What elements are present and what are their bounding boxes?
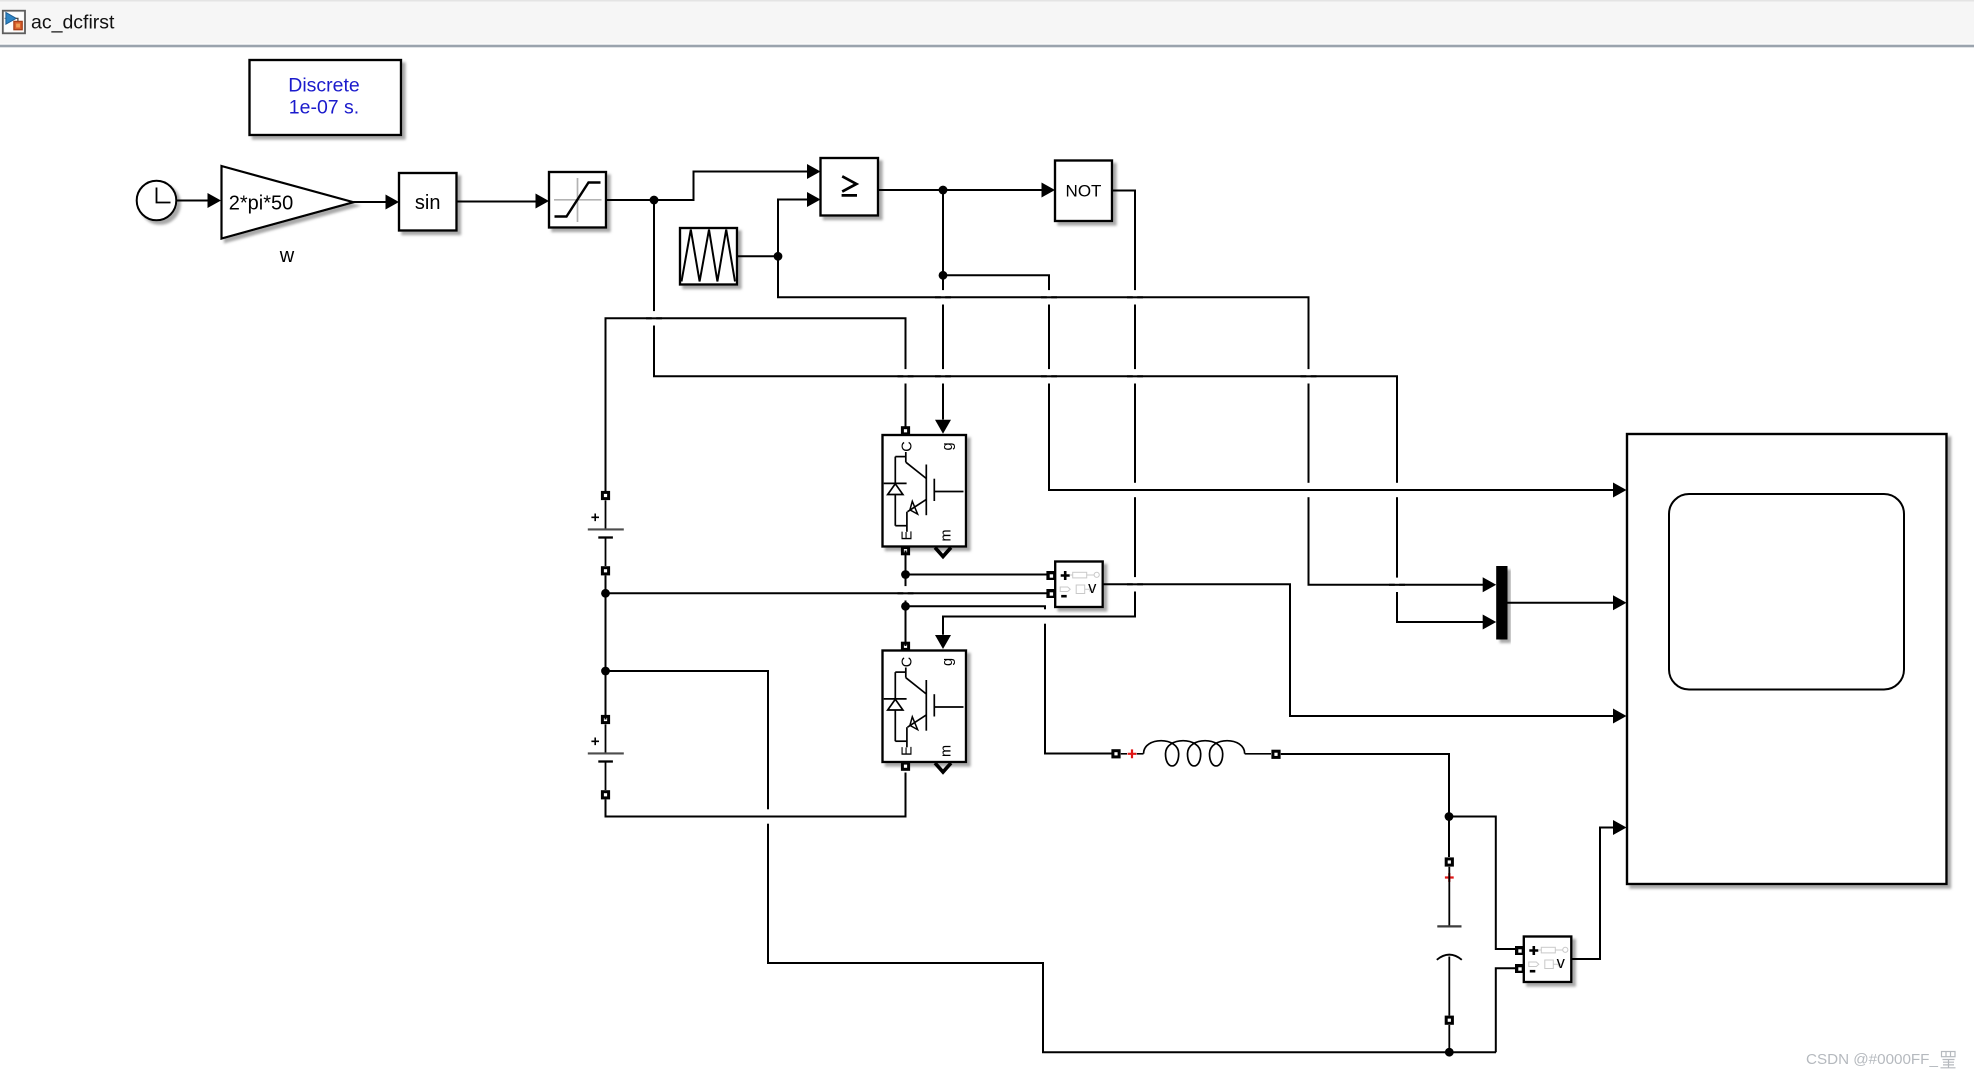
svg-text:w: w	[279, 245, 295, 267]
svg-text:v: v	[1088, 579, 1097, 597]
svg-text:E: E	[900, 530, 916, 540]
svg-text:C: C	[900, 441, 916, 451]
svg-text:m: m	[939, 529, 955, 541]
svg-text:C: C	[900, 657, 916, 667]
svg-text:NOT: NOT	[1066, 181, 1102, 200]
svg-text:CSDN @#0000FF_: CSDN @#0000FF_	[1806, 1051, 1938, 1068]
svg-text:ac_dcfirst: ac_dcfirst	[31, 12, 115, 34]
svg-text:E: E	[900, 746, 916, 756]
svg-text:sin: sin	[415, 192, 441, 214]
svg-text:g: g	[940, 658, 956, 666]
svg-text:v: v	[1557, 954, 1566, 972]
svg-text:1e-07 s.: 1e-07 s.	[289, 97, 359, 119]
svg-text:g: g	[940, 442, 956, 450]
svg-text:Discrete: Discrete	[288, 74, 360, 96]
svg-text:2*pi*50: 2*pi*50	[229, 193, 294, 215]
svg-text:m: m	[939, 745, 955, 757]
